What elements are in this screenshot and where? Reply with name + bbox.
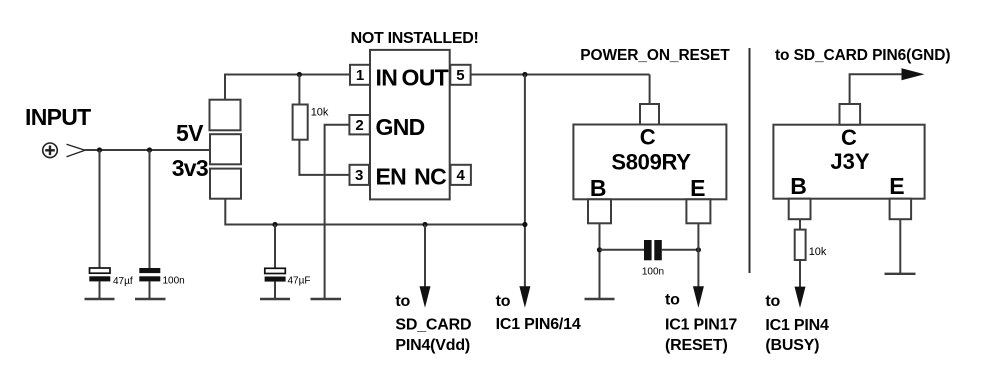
capacitor C3 47uF electrolytic (265, 268, 311, 286)
node junction dot (597, 247, 602, 252)
svg-text:to: to (395, 293, 410, 310)
svg-text:EN: EN (376, 163, 407, 189)
Q1 C pin box (640, 104, 659, 125)
wire C2 drop (149, 150, 151, 268)
wire input feed (85, 149, 211, 151)
svg-text:NOT INSTALLED!: NOT INSTALLED! (351, 30, 479, 47)
wire C1 drop (99, 150, 101, 268)
arrow down IC1 PIN4 (795, 287, 806, 308)
wire Q1 E down to arrow (697, 223, 699, 292)
label to IC1 PIN6/14 (496, 293, 581, 333)
svg-text:to: to (765, 293, 780, 310)
wire pin5 to S809RY C (471, 74, 650, 76)
wire resistor R1 top (298, 75, 300, 105)
svg-text:3v3: 3v3 (172, 155, 208, 181)
svg-text:B: B (790, 173, 807, 199)
ground (585, 298, 615, 300)
svg-text:100n: 100n (163, 276, 185, 287)
arrow right SD_CARD PIN6 (902, 68, 925, 80)
svg-text:PIN4(Vdd): PIN4(Vdd) (395, 337, 470, 354)
wire branch down to rail and IC1 PIN6/14 (524, 75, 526, 293)
svg-text:GND: GND (376, 114, 425, 140)
svg-text:IN: IN (376, 65, 398, 91)
svg-text:to: to (496, 293, 511, 310)
wire resistor R1 bottom to IC1 pin3 (299, 140, 349, 175)
node junction dot (522, 72, 527, 77)
svg-text:10k: 10k (809, 246, 827, 258)
svg-text:C: C (640, 125, 656, 150)
ground (311, 298, 342, 300)
wire Q2 E to ground (899, 219, 901, 273)
wire Q1 B to ground (599, 223, 601, 298)
node junction dot (272, 222, 277, 227)
wire C1 to ground (99, 282, 101, 299)
svg-text:E: E (690, 175, 705, 201)
transistor Q1 S809RY body (573, 125, 726, 200)
node junction dot (696, 247, 701, 252)
svg-text:NC: NC (414, 163, 446, 189)
svg-text:SD_CARD: SD_CARD (395, 317, 471, 334)
svg-text:E: E (889, 173, 904, 199)
svg-text:IC1 PIN17: IC1 PIN17 (665, 316, 737, 333)
node junction dot (422, 222, 427, 227)
svg-text:(BUSY): (BUSY) (765, 337, 819, 354)
wire Q2 B to resistor R2 (799, 219, 801, 230)
pin 5 box (450, 65, 470, 85)
arrow down SD_CARD PIN4 (420, 286, 431, 307)
Q1 B pin box (588, 199, 611, 223)
svg-text:4: 4 (457, 167, 466, 184)
svg-text:POWER_ON_RESET: POWER_ON_RESET (580, 47, 730, 64)
ground (885, 273, 916, 275)
node junction dot (147, 147, 152, 152)
wire jumper3 bottom rail (225, 199, 525, 225)
pin 3 box (350, 165, 370, 185)
input terminal circle with plus (43, 143, 58, 158)
resistor R1 10k (293, 105, 329, 140)
svg-text:47µF: 47µF (288, 276, 311, 287)
svg-text:B: B (590, 175, 607, 201)
svg-text:10k: 10k (311, 107, 329, 119)
wire C3 to ground (274, 282, 276, 299)
jumper box 2 (210, 134, 241, 164)
wire jumper1 top to IC1 pin1 (225, 75, 350, 100)
ground (135, 298, 166, 300)
resistor R2 10k (795, 230, 827, 260)
svg-text:(RESET): (RESET) (665, 337, 728, 354)
jumper box 1 (210, 100, 241, 131)
pin 1 box (350, 65, 370, 85)
svg-text:1: 1 (356, 67, 364, 84)
svg-text:100n: 100n (642, 266, 664, 277)
ground (85, 298, 115, 300)
capacitor C4 100n (642, 240, 664, 277)
svg-text:47µf: 47µf (113, 276, 133, 287)
Q2 B pin box (789, 199, 811, 220)
svg-text:5V: 5V (176, 120, 204, 146)
arrow down IC1 PIN6/14 (519, 286, 530, 307)
input connector open arrow (67, 144, 86, 156)
svg-text:INPUT: INPUT (25, 104, 91, 130)
wire C3 drop (274, 225, 276, 269)
Q2 E pin box (890, 199, 912, 220)
wire C2 to ground (149, 282, 151, 299)
wire Q1 B to C4 (600, 249, 645, 251)
separator line (749, 48, 751, 273)
svg-text:IC1 PIN4: IC1 PIN4 (765, 317, 829, 334)
jumper box 3 (210, 169, 241, 199)
op-amp/regulator U1 body (370, 50, 450, 200)
capacitor C2 100n (139, 268, 184, 287)
wire IC1 pin2 to ground (325, 125, 350, 299)
wire J3Y C pin up and right (850, 74, 904, 104)
svg-text:to: to (665, 292, 680, 309)
arrow down IC1 PIN17 (693, 286, 704, 307)
wire S809RY C pin drop (649, 75, 651, 105)
node junction dot (522, 222, 527, 227)
svg-text:OUT: OUT (402, 65, 449, 91)
Q1 E pin box (686, 199, 710, 223)
svg-text:5: 5 (456, 67, 464, 84)
node junction dot (297, 72, 302, 77)
svg-text:S809RY: S809RY (611, 149, 691, 174)
svg-text:2: 2 (355, 117, 363, 134)
pin 4 box (451, 165, 471, 185)
wire C4 to E line (662, 249, 699, 251)
svg-text:J3Y: J3Y (830, 149, 869, 174)
label to IC1 PIN17 (RESET) (665, 292, 737, 354)
transistor Q2 J3Y body (773, 125, 924, 199)
Q2 C pin box (840, 104, 861, 125)
wire arrow to SD_CARD PIN4 (424, 225, 426, 293)
pin 2 box (349, 115, 369, 134)
svg-text:3: 3 (355, 167, 363, 184)
node junction dot (97, 147, 102, 152)
svg-text:C: C (841, 125, 857, 150)
label to IC1 PIN4 (BUSY) (765, 293, 829, 354)
label to SD_CARD PIN4(Vdd) (395, 293, 471, 354)
wire R2 to arrow (799, 260, 801, 292)
svg-text:to SD_CARD PIN6(GND): to SD_CARD PIN6(GND) (775, 47, 950, 64)
svg-text:IC1 PIN6/14: IC1 PIN6/14 (496, 316, 581, 333)
ground (260, 298, 290, 300)
capacitor C1 47uf electrolytic (89, 268, 133, 287)
